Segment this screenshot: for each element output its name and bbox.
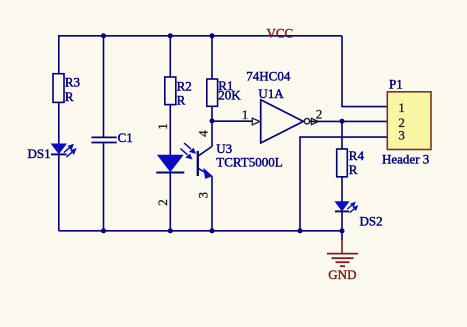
- wire node to inverter input: [212, 120, 253, 122]
- wire DS1 to bottom rail: [58, 154, 60, 230]
- wire C1 column top: [103, 35, 105, 137]
- wire header pin3 to bottom rail: [300, 137, 388, 231]
- wire R4 to DS2: [341, 177, 343, 202]
- svg-text:2: 2: [316, 107, 323, 122]
- junction R1/collector/inverter input: [210, 118, 215, 123]
- svg-text:TCRT5000L: TCRT5000L: [216, 155, 282, 170]
- svg-text:4: 4: [196, 130, 211, 137]
- junction top rail at R2: [168, 33, 173, 38]
- svg-text:2: 2: [155, 199, 170, 206]
- ground GND: [327, 254, 358, 282]
- svg-text:74HC04: 74HC04: [246, 68, 291, 83]
- wire bottom rail: [59, 230, 342, 232]
- junction bottom rail at GND: [340, 228, 345, 233]
- svg-text:R4: R4: [349, 148, 365, 163]
- junction bottom rail at pin3 wire: [298, 228, 303, 233]
- svg-text:U3: U3: [216, 141, 232, 156]
- junction bottom rail at C1: [101, 228, 106, 233]
- LED inside U3: [156, 155, 184, 172]
- wire U3 LED cathode to bottom rail: [169, 173, 171, 231]
- svg-text:R3: R3: [65, 74, 80, 89]
- svg-text:1: 1: [242, 107, 249, 122]
- junction output/R4: [340, 119, 345, 124]
- svg-text:3: 3: [196, 192, 211, 199]
- resistor R4: [337, 149, 348, 177]
- wire U3 emitter to bottom rail: [211, 176, 213, 231]
- junction top rail at C1: [101, 33, 106, 38]
- svg-text:P1: P1: [389, 77, 403, 92]
- svg-text:3: 3: [398, 127, 405, 142]
- junction bottom rail at emitter: [210, 228, 215, 233]
- resistor R1: [207, 79, 218, 106]
- LED DS1: [28, 144, 76, 161]
- svg-text:1: 1: [155, 123, 170, 130]
- LED DS2: [335, 202, 383, 229]
- wire inverter output to header pin 2: [309, 120, 388, 122]
- svg-text:GND: GND: [328, 267, 356, 282]
- wire DS2 to bottom rail / GND: [341, 211, 343, 240]
- svg-text:U1A: U1A: [258, 86, 284, 101]
- wire R2 to U3 LED anode: [169, 105, 171, 156]
- svg-text:R2: R2: [177, 78, 192, 93]
- connector P1 Header 3: [382, 77, 431, 167]
- light arrows into U3 transistor: [184, 143, 191, 149]
- wire left column top (VCC to R3): [58, 35, 60, 74]
- svg-text:R: R: [65, 89, 74, 104]
- svg-text:R: R: [177, 93, 186, 108]
- resistor R2: [165, 77, 176, 105]
- svg-text:R: R: [349, 162, 358, 177]
- output arrowhead pin 2: [311, 118, 318, 124]
- wire R1 column top: [211, 35, 213, 79]
- svg-text:VCC: VCC: [267, 26, 294, 41]
- junction top rail at R1: [210, 33, 215, 38]
- svg-text:DS1: DS1: [28, 146, 51, 161]
- wire VCC top rail: [59, 35, 342, 37]
- wire R3 to DS1: [58, 102, 60, 144]
- wire R1 down through node to collector: [211, 106, 213, 146]
- svg-text:Header 3: Header 3: [382, 152, 429, 167]
- op-amp U1A inverter 74HC04: [246, 68, 309, 143]
- svg-text:DS2: DS2: [360, 213, 383, 228]
- capacitor C1: [91, 130, 132, 145]
- wire R4 branch from output node: [341, 121, 343, 149]
- svg-text:1: 1: [398, 100, 405, 115]
- resistor R3: [53, 74, 64, 103]
- wire VCC rail to header pin1: [342, 36, 388, 107]
- wire C1 to bottom rail: [103, 143, 105, 231]
- wire R2 column top: [169, 35, 171, 77]
- input arrowhead: [252, 118, 259, 125]
- junction bottom rail at LED cathode: [168, 228, 173, 233]
- svg-text:C1: C1: [118, 130, 133, 145]
- transistor in U3 (phototransistor): [198, 146, 212, 178]
- svg-text:20K: 20K: [218, 87, 241, 102]
